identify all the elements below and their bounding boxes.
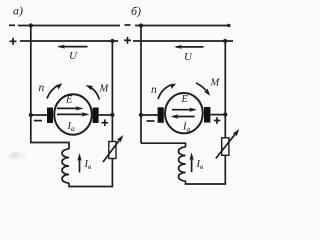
junction dot right brush wire (b) — [223, 112, 227, 116]
rotation arrow n (b) — [158, 84, 176, 100]
svg-text:б): б) — [131, 4, 141, 18]
supply minus sign (b) — [125, 24, 131, 26]
svg-text:E: E — [181, 94, 189, 105]
right brush (a) — [93, 108, 99, 124]
junction dot right brush wire (a) — [110, 113, 114, 117]
end dot top rail (b) — [227, 24, 230, 27]
svg-text:n: n — [39, 82, 45, 94]
svg-text:U: U — [69, 50, 78, 62]
armature current arrow lower (a) — [57, 112, 90, 116]
svg-text:M: M — [210, 78, 221, 89]
rheostat arrow (b) — [216, 129, 240, 159]
field current arrow Iv (a) — [77, 153, 81, 173]
svg-text:E: E — [65, 95, 73, 106]
wire from right brush (b) — [210, 114, 225, 116]
field winding coil (b) — [179, 147, 186, 181]
supply plus sign (a) — [10, 38, 17, 45]
svg-text:U: U — [184, 51, 193, 63]
torque arrow M (a) — [86, 85, 100, 100]
field current arrow Iv (b) — [189, 153, 193, 173]
supply plus sign (b) — [124, 37, 131, 44]
right vertical wire lower (a) — [111, 159, 113, 187]
plus polarity at right brush (b) — [214, 117, 221, 124]
wire to field winding (a) — [31, 143, 69, 150]
svg-text:M: M — [99, 84, 110, 95]
armature circle (b) — [165, 93, 203, 133]
supply minus sign (a) — [9, 24, 15, 26]
right brush (b) — [204, 107, 210, 123]
top supply rail (a) — [18, 25, 120, 27]
load current arrow lower (b) — [171, 114, 195, 118]
minus polarity at left brush (a) — [34, 120, 42, 122]
left vertical wire (b) — [140, 26, 142, 144]
left vertical wire (a) — [30, 26, 32, 144]
voltage arrow U (a) — [57, 45, 88, 49]
bottom wire (b) — [186, 181, 226, 184]
wire to left brush (a) — [31, 114, 48, 116]
armature circle (a) — [54, 94, 92, 135]
rheostat box (b) — [222, 138, 229, 156]
rheostat box (a) — [109, 142, 116, 159]
rheostat arrow (a) — [103, 135, 123, 162]
emf arrow upper (b) — [172, 108, 197, 112]
left brush (a) — [47, 108, 53, 124]
right vertical wire lower (b) — [224, 155, 226, 184]
plus polarity at right brush (a) — [102, 119, 109, 126]
torque arrow M (b) — [196, 83, 210, 96]
top supply rail (b) — [135, 25, 230, 27]
voltage arrow U (b) — [174, 45, 204, 49]
right vertical wire upper (b) — [224, 41, 226, 138]
wire to field winding (b) — [141, 143, 186, 147]
svg-text:n: n — [151, 84, 157, 96]
svg-text:а): а) — [13, 4, 23, 18]
junction dot top rail (a) — [29, 23, 33, 27]
plus supply rail (a) — [20, 40, 118, 42]
junction dot left brush wire (a) — [29, 113, 33, 117]
plus supply rail (b) — [133, 40, 233, 42]
rotation arrow n (a) — [47, 83, 63, 98]
field winding coil (a) — [62, 149, 69, 183]
junction dot left brush wire (b) — [139, 113, 143, 117]
left brush (b) — [158, 107, 164, 123]
junction dot top rail (b) — [139, 23, 143, 27]
bottom wire (a) — [69, 183, 112, 187]
minus polarity at left brush (b) — [147, 120, 155, 122]
wire to left brush (b) — [141, 114, 158, 116]
junction dot plus rail (b) — [223, 39, 227, 43]
emf arrow upper (a) — [57, 106, 84, 110]
junction dot plus rail (a) — [110, 39, 114, 43]
wire from right brush (a) — [99, 114, 113, 116]
right vertical wire upper (a) — [111, 41, 113, 142]
